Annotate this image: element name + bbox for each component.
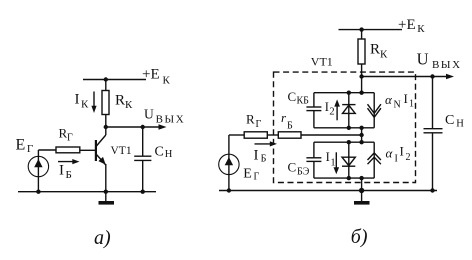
svg-text:Г: Г [27,143,33,155]
svg-text:α: α [385,92,393,107]
svg-text:R: R [370,42,380,58]
svg-text:N: N [394,100,401,111]
svg-text:Г: Г [67,133,73,144]
upper rect loop (collector-base junction) [314,92,374,94]
resistor RK2 [358,39,365,64]
svg-text:К: К [380,49,388,61]
wire: top supply rail right [339,29,403,31]
ground symbol left [105,192,107,201]
svg-text:R: R [115,93,125,109]
node: model top edge junction [359,91,363,95]
arrow IB right [255,143,273,145]
wire: CN2 top lead [432,77,434,129]
lower diode line [348,142,350,178]
svg-text:I: I [75,92,80,108]
node: upper rect bottom junction [359,126,363,130]
wire: emitter to ground rail [361,178,363,190]
current source alphaN I1 (double chevron down) [368,104,381,113]
svg-text:U: U [417,50,429,69]
wire: RK2 bottom to collector node [361,64,363,77]
wire: junction to RK top [105,80,107,91]
svg-text:I: I [59,163,64,179]
node: EG2 ground [227,188,231,192]
wire: junction to RK2 [361,30,363,39]
svg-text:U: U [144,106,154,121]
svg-text:Б: Б [287,121,293,132]
svg-text:I: I [395,154,398,165]
wire: EG2 to RG2 [229,134,244,136]
svg-text:VT1: VT1 [311,54,333,68]
node: CN2 tap [430,74,434,78]
wire: collector node into model top edge [361,77,363,93]
wire: CN bottom lead [142,160,144,191]
wire: top supply rail left [83,79,146,81]
resistor RG2 [244,132,267,138]
arrow I2 up [336,104,338,121]
source EG circle [28,156,48,176]
svg-text:К: К [417,23,425,35]
svg-text:+E: +E [142,67,160,83]
dashed box VT1 model [274,72,416,182]
svg-text:КБ: КБ [297,96,310,107]
resistor RG [56,147,80,153]
svg-text:К: К [125,99,133,111]
node: lower rect bottom junction [359,176,363,180]
diode down (emitter junction diode) [342,157,355,165]
svg-text:С: С [288,160,297,175]
svg-text:Н: Н [165,149,173,160]
wire: EG to RG [38,149,56,151]
svg-text:C: C [155,145,164,160]
svg-text:К: К [163,75,171,87]
current source alphaI I2 (double chevron up) [368,153,381,160]
transistor VT1 base bar [95,140,97,161]
svg-text:I: I [326,150,330,164]
transistor VT1 emitter lead [96,154,106,165]
base wire [301,134,362,136]
svg-text:ВЫХ: ВЫХ [156,114,186,126]
node: CN tap [141,125,145,129]
svg-text:а): а) [94,227,111,249]
transistor VT1 collector lead [105,127,107,135]
upper diode line [348,93,350,128]
arrow IK [93,92,95,108]
capacitor CN [134,155,151,157]
arrow IB left [58,161,75,163]
ground symbol right [361,191,363,202]
svg-text:Г: Г [254,172,260,183]
svg-text:α: α [386,146,394,161]
wire: CN top lead [142,127,144,156]
resistor RK [102,91,109,115]
node: supply junction right [359,27,363,31]
ground rail left [18,191,156,193]
svg-text:Н: Н [456,119,464,130]
node: collector junction right [359,74,363,78]
capacitor CBE [306,157,321,159]
wire: base lead [80,149,95,151]
node: base wire junction [359,133,363,137]
svg-text:I: I [400,144,404,159]
svg-text:ВЫХ: ВЫХ [432,59,462,71]
lower rect loop (base-emitter junction) [314,141,374,143]
svg-text:I: I [404,91,408,106]
wire: output right with arrow [362,76,448,78]
capacitor CKB [306,106,321,108]
svg-text:1: 1 [330,158,335,169]
node: lower rect top junctions [359,140,363,144]
capacitor CN2 [424,128,443,130]
svg-text:Г: Г [256,119,262,130]
svg-text:+E: +E [398,17,416,33]
svg-text:R: R [246,112,255,127]
svg-text:C: C [445,113,454,128]
svg-text:Б: Б [66,169,72,181]
arrow I1 down [335,152,337,168]
svg-text:К: К [81,99,89,111]
svg-text:I: I [254,148,259,164]
svg-text:С: С [288,89,297,104]
svg-text:Е: Е [243,167,252,182]
svg-text:б): б) [351,226,368,248]
node: emitter ground [104,190,108,194]
wire: inter-junction vertical [361,128,363,142]
node: collector/output junction [104,125,108,129]
svg-text:2: 2 [406,152,411,163]
node: CN2 ground [430,188,434,192]
wire: output with arrow [106,126,160,128]
wire: CN2 bottom lead [432,133,434,191]
node: CN ground [141,190,145,194]
node: EG ground [36,190,40,194]
ground rail right [219,190,437,192]
svg-text:Б: Б [261,153,267,164]
resistor rB [278,132,301,138]
source EG2 circle [219,154,239,174]
svg-text:1: 1 [409,99,414,110]
node: emitter ground junction [359,188,364,193]
svg-text:2: 2 [329,106,334,117]
diode up (collector junction diode) [342,104,355,106]
svg-text:БЭ: БЭ [297,167,310,178]
node: supply junction [104,77,108,81]
svg-text:I: I [325,100,329,114]
svg-text:VT1: VT1 [111,145,132,157]
svg-text:Е: Е [16,137,26,154]
wire: RG2 to rB [267,134,278,136]
wire: RK bottom to collector node [105,115,107,128]
